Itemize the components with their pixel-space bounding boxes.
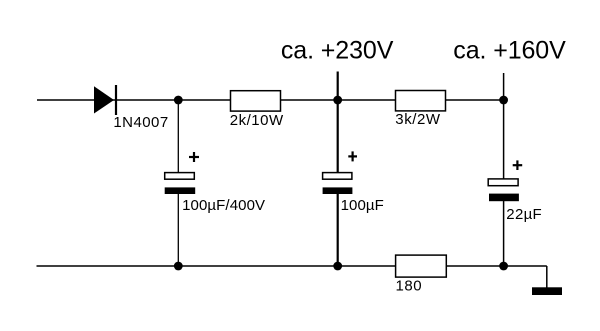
svg-text:180: 180 [396,278,423,295]
svg-text:100µF: 100µF [341,197,384,214]
svg-text:3k/2W: 3k/2W [395,111,441,128]
svg-text:22µF: 22µF [506,206,542,223]
svg-text:2k/10W: 2k/10W [230,112,284,129]
svg-text:100µF/400V: 100µF/400V [182,197,265,214]
svg-text:ca. +160V: ca. +160V [453,37,566,65]
svg-text:1N4007: 1N4007 [113,114,168,131]
svg-text:ca. +230V: ca. +230V [281,37,394,65]
